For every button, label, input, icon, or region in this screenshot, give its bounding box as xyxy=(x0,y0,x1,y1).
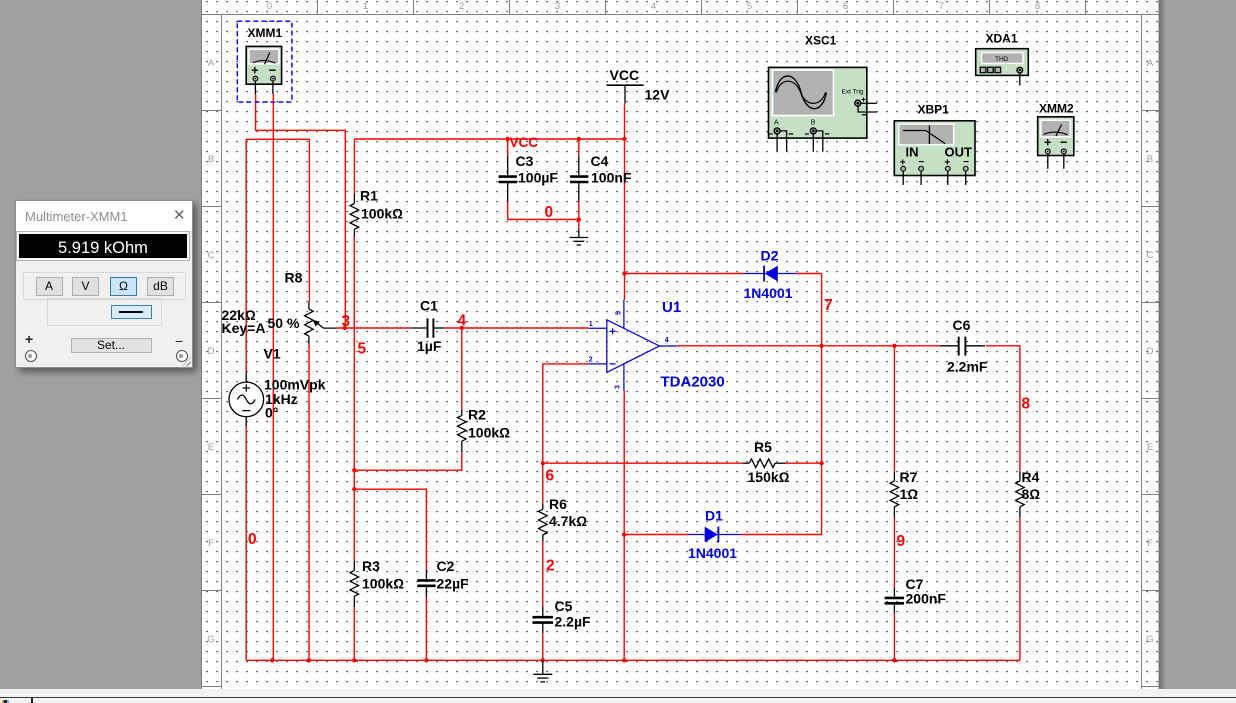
svg-text:100kΩ: 100kΩ xyxy=(362,576,404,592)
sheet background xyxy=(201,0,1160,690)
svg-text:1: 1 xyxy=(589,321,593,328)
svg-text:D2: D2 xyxy=(761,248,779,264)
svg-text:R5: R5 xyxy=(754,439,772,455)
wire node 5 branch to C2 xyxy=(354,489,426,570)
svg-text:7: 7 xyxy=(824,297,833,314)
svg-text:8Ω: 8Ω xyxy=(1022,486,1041,502)
svg-text:4: 4 xyxy=(651,1,656,12)
svg-text:R8: R8 xyxy=(285,270,303,286)
svg-text:4: 4 xyxy=(458,313,467,330)
svg-text:0: 0 xyxy=(545,204,554,221)
svg-text:XMM2: XMM2 xyxy=(1039,102,1074,116)
svg-text:50 %: 50 % xyxy=(268,315,300,331)
svg-text:6: 6 xyxy=(546,468,555,485)
resistor R2 xyxy=(458,409,467,452)
svg-text:C4: C4 xyxy=(591,153,609,169)
ruler letters left xyxy=(207,58,215,645)
svg-text:IN: IN xyxy=(906,145,919,160)
svg-text:B: B xyxy=(1147,154,1153,165)
svg-text:V1: V1 xyxy=(264,346,281,362)
svg-text:F: F xyxy=(208,538,214,549)
wire node 6 to R5 left xyxy=(543,462,743,464)
svg-text:A: A xyxy=(208,58,215,69)
capacitor C2 xyxy=(417,570,435,597)
resistor R4 xyxy=(1016,472,1025,518)
svg-text:G: G xyxy=(207,634,214,645)
svg-text:100nF: 100nF xyxy=(591,170,632,186)
ground at main rail xyxy=(533,660,552,682)
wire VCC to D2 cathode xyxy=(625,273,744,275)
right gray panel shadow xyxy=(1159,0,1236,690)
svg-text:1N4001: 1N4001 xyxy=(688,545,737,561)
wire R8 bottom to ground rail xyxy=(308,345,310,661)
svg-text:2: 2 xyxy=(589,357,593,364)
svg-text:C5: C5 xyxy=(555,598,573,614)
svg-text:C: C xyxy=(208,250,215,261)
wire V1 minus to ground rail xyxy=(245,427,247,661)
wire C2 bottom to ground rail xyxy=(425,597,427,660)
svg-text:2.2µF: 2.2µF xyxy=(555,614,592,630)
svg-text:E: E xyxy=(1147,442,1153,453)
svg-text:150kΩ: 150kΩ xyxy=(748,469,790,485)
resistor R1 xyxy=(350,194,359,237)
resistor R6 xyxy=(539,504,548,541)
wire XMM1 plus lead to node 3 xyxy=(256,94,346,328)
svg-text:C: C xyxy=(1147,250,1154,261)
ruler letters right xyxy=(1146,58,1154,645)
capacitor C1 xyxy=(410,318,444,337)
svg-text:XBP1: XBP1 xyxy=(918,103,950,117)
wire node 4 down to R2 xyxy=(461,328,463,409)
wire D2 anode to node 7 xyxy=(797,273,822,275)
wire VCC vertical to op-amp pin 5 xyxy=(624,104,626,300)
svg-text:D: D xyxy=(1147,346,1154,357)
wire node 7 down to R7 xyxy=(893,346,895,472)
svg-text:0: 0 xyxy=(267,1,272,12)
svg-text:E: E xyxy=(208,442,214,453)
svg-text:VCC: VCC xyxy=(610,67,640,83)
wire VCC rail xyxy=(354,138,624,140)
resistor R3 xyxy=(350,561,359,607)
svg-text:THD: THD xyxy=(995,56,1009,63)
potentiometer R8 xyxy=(305,302,337,345)
svg-text:2.2mF: 2.2mF xyxy=(947,359,988,375)
svg-text:U1: U1 xyxy=(662,299,681,316)
svg-text:VCC: VCC xyxy=(510,135,539,150)
svg-text:1Ω: 1Ω xyxy=(900,486,919,502)
wire ground rail node 0 xyxy=(246,659,1020,661)
wire C6 right node 8 xyxy=(986,346,1020,472)
svg-text:G: G xyxy=(1146,634,1153,645)
wire op-amp output node 7 to C6 xyxy=(677,345,941,347)
capacitor C3 xyxy=(499,156,517,202)
svg-text:3: 3 xyxy=(555,1,560,12)
wire C5 bottom to ground rail xyxy=(542,633,544,660)
svg-text:0: 0 xyxy=(248,531,257,548)
svg-text:XMM1: XMM1 xyxy=(248,26,283,40)
wire R3 bottom to ground rail xyxy=(353,607,355,660)
bottom scrollbar strip xyxy=(0,689,1236,703)
wire VCC rail to R1 top xyxy=(353,139,355,194)
Multimeter-XMM1 dialog xyxy=(15,200,193,368)
capacitor C7 xyxy=(885,588,905,613)
svg-text:B: B xyxy=(208,154,214,165)
svg-text:200nF: 200nF xyxy=(906,591,947,607)
svg-text:R3: R3 xyxy=(362,558,380,574)
wire op-amp pin 3 to ground rail xyxy=(623,391,625,660)
source V1 xyxy=(229,372,264,427)
ruler numbers xyxy=(267,1,1040,12)
svg-text:4.7kΩ: 4.7kΩ xyxy=(549,513,587,529)
svg-text:5: 5 xyxy=(358,341,367,358)
wire D1 anode to ground line xyxy=(624,534,688,536)
svg-text:Key=A: Key=A xyxy=(222,320,266,336)
capacitor C5 xyxy=(532,607,553,634)
svg-text:R4: R4 xyxy=(1022,469,1040,485)
svg-text:8: 8 xyxy=(1035,1,1040,12)
capacitor C6 xyxy=(940,337,985,356)
resistor R5 xyxy=(743,459,786,468)
svg-text:3: 3 xyxy=(342,313,351,330)
svg-text:D: D xyxy=(208,346,215,357)
svg-text:A: A xyxy=(1147,58,1154,69)
svg-text:R7: R7 xyxy=(900,469,918,485)
svg-text:R1: R1 xyxy=(360,188,378,204)
svg-text:1: 1 xyxy=(363,1,368,12)
svg-text:F: F xyxy=(1147,538,1153,549)
diode D2 1N4001 xyxy=(744,266,797,282)
wire C7 bottom to ground rail xyxy=(893,613,895,660)
svg-text:C1: C1 xyxy=(420,298,438,314)
svg-text:Ext Trig: Ext Trig xyxy=(842,89,864,96)
svg-text:C3: C3 xyxy=(516,153,534,169)
svg-text:100µF: 100µF xyxy=(518,170,558,186)
svg-text:2: 2 xyxy=(546,558,555,575)
svg-text:5: 5 xyxy=(747,1,752,12)
svg-text:5: 5 xyxy=(616,311,623,315)
VCC power symbol xyxy=(607,85,644,104)
diode D1 1N4001 xyxy=(689,527,741,543)
wire R2 bottom to node 5 xyxy=(354,453,462,471)
svg-text:XSC1: XSC1 xyxy=(805,34,837,48)
svg-text:3: 3 xyxy=(615,385,622,389)
svg-text:B: B xyxy=(811,120,816,127)
svg-text:XDA1: XDA1 xyxy=(986,32,1018,46)
svg-text:8: 8 xyxy=(1022,396,1031,413)
svg-text:22µF: 22µF xyxy=(437,576,470,592)
wire R6 bottom node 2 to C5 xyxy=(542,541,544,607)
svg-text:R6: R6 xyxy=(549,496,567,512)
svg-text:2: 2 xyxy=(459,1,464,12)
svg-text:TDA2030: TDA2030 xyxy=(661,374,725,391)
wire node 7 vertical D2 to D1 xyxy=(741,274,822,535)
svg-text:7: 7 xyxy=(939,1,944,12)
wire R7 bottom node 9 to C7 xyxy=(893,518,895,588)
svg-text:A: A xyxy=(774,120,779,127)
wire R1 bottom node 5 xyxy=(353,237,355,561)
wire V1 plus to R8 top xyxy=(246,139,309,372)
ground under C4 xyxy=(570,229,589,245)
svg-text:C6: C6 xyxy=(953,317,971,333)
wire R5 right to node 7 xyxy=(786,462,822,464)
wire C3 bottom to node 0 xyxy=(508,202,579,220)
svg-text:100kΩ: 100kΩ xyxy=(468,425,510,441)
XMM1 selection box xyxy=(237,21,292,102)
capacitor C4 xyxy=(570,156,588,202)
wire C3/C4 red stubs xyxy=(507,139,509,156)
svg-text:12V: 12V xyxy=(645,87,671,103)
sheet border frame lines xyxy=(202,0,1160,690)
wire XMM1 minus lead to ground rail xyxy=(272,94,274,660)
op-amp U1 TDA2030 xyxy=(588,300,676,391)
wire C1 to op-amp plus input node 4 xyxy=(445,327,589,329)
svg-text:1N4001: 1N4001 xyxy=(744,285,793,301)
svg-text:C2: C2 xyxy=(437,558,455,574)
svg-text:0°: 0° xyxy=(265,405,278,421)
svg-text:1µF: 1µF xyxy=(417,338,442,354)
wire op-amp minus input to node 6 xyxy=(543,364,589,504)
svg-text:4: 4 xyxy=(665,337,669,344)
wire node 3 horizontal to C1 xyxy=(336,327,410,329)
svg-text:100kΩ: 100kΩ xyxy=(361,206,403,222)
svg-text:9: 9 xyxy=(897,533,906,550)
svg-text:D1: D1 xyxy=(705,508,723,524)
svg-text:6: 6 xyxy=(843,1,848,12)
resistor R7 xyxy=(890,472,899,518)
svg-text:R2: R2 xyxy=(468,407,486,423)
